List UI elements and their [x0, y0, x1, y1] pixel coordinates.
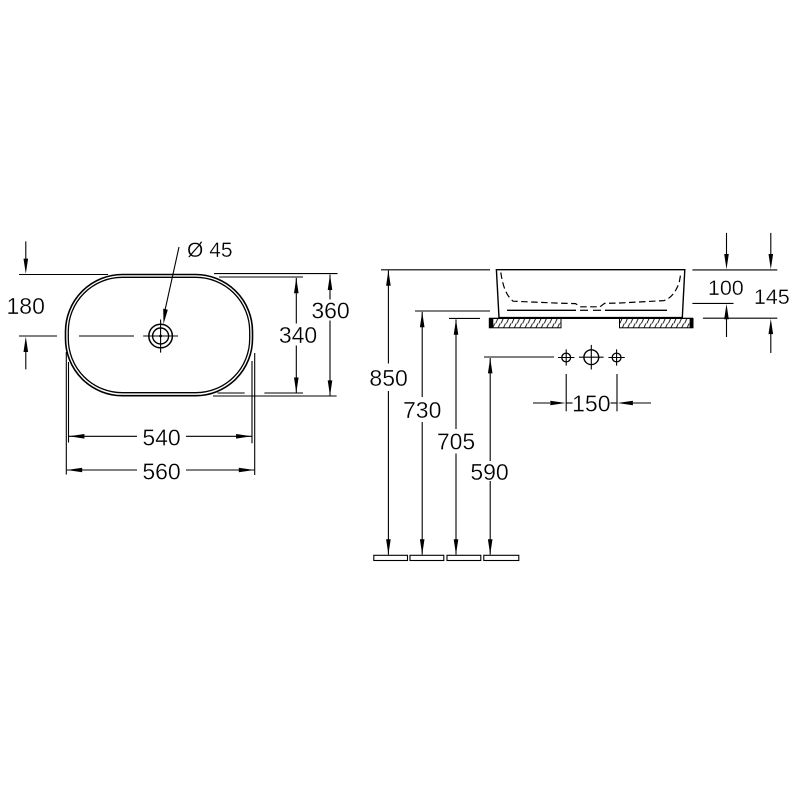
drain hole inner circle — [153, 328, 169, 344]
countertop hatched section right — [620, 318, 694, 327]
dimension 730 line lower segment with arrow — [421, 422, 423, 555]
basin floor solid line right — [605, 309, 667, 311]
dimension 100 lower arrow (up) — [726, 319, 728, 337]
svg-text:705: 705 — [437, 429, 475, 455]
dimension 850 top extension line — [381, 269, 490, 271]
dimension 360 bottom extension line — [213, 395, 337, 397]
dimension 100/145 top extension line — [692, 269, 777, 271]
dimension 340 bottom extension line — [218, 392, 245, 394]
svg-text:590: 590 — [470, 459, 508, 485]
dimension 340 line upper segment with arrow — [295, 278, 297, 324]
dimension 150 line stubs — [566, 402, 572, 404]
basin profile (side view) — [496, 270, 684, 318]
dimension 850 line lower segment with arrow — [387, 391, 389, 555]
dimension 705 line upper segment with arrow — [455, 319, 457, 429]
floor tile 2 — [410, 555, 444, 560]
countertop hatched section left — [489, 318, 561, 327]
dimension 145 upper arrow (down) — [770, 233, 772, 255]
dimension 540 line right segment with arrow — [186, 435, 252, 437]
dimension 730 line upper segment with arrow — [421, 312, 423, 397]
faucet hole right — [612, 353, 621, 362]
dimension 180 top extension line — [19, 274, 108, 276]
dimension 590 extension line — [484, 356, 554, 358]
dimension 145 bottom extension line — [703, 317, 777, 319]
floor tile 4 — [484, 555, 519, 560]
dimension 180 upper arrow (down) — [25, 241, 27, 259]
dimension 560 line left segment with arrow — [67, 469, 137, 471]
floor tile 3 — [447, 555, 481, 560]
dimension 150 left extension line — [565, 374, 567, 411]
dimension 540 line left segment with arrow — [69, 435, 137, 437]
dimension 540 right extension line — [251, 361, 253, 443]
svg-text:730: 730 — [403, 397, 441, 423]
dimension 730 extension line — [415, 310, 490, 312]
dimension 340 top extension line — [219, 276, 303, 278]
svg-text:150: 150 — [572, 390, 610, 416]
dimension 560 right extension line — [254, 353, 256, 475]
horizontal centerline of oval — [79, 335, 134, 337]
svg-text:850: 850 — [369, 365, 407, 391]
svg-text:Ø 45: Ø 45 — [187, 239, 233, 262]
dimension 360 line lower segment with arrow — [329, 321, 331, 396]
basin floor dashes at drain — [580, 309, 588, 311]
drain center dot — [159, 335, 162, 338]
dimension 560 left extension line — [65, 352, 67, 475]
basin floor solid line left — [507, 309, 576, 311]
dimension 150 right outside arrow — [633, 402, 651, 404]
leader arrowhead — [163, 309, 168, 325]
faucet hole center — [584, 350, 599, 365]
dimension 540 left extension line — [68, 362, 70, 443]
drain crosshair vertical — [160, 320, 162, 353]
dimension 150 left outside arrow — [533, 402, 550, 404]
basin inner contour dashed — [501, 273, 681, 307]
svg-text:540: 540 — [142, 425, 180, 451]
leader line for diameter 45 — [165, 247, 179, 312]
dimension 590 line lower segment with arrow — [489, 481, 491, 555]
countertop top line — [489, 317, 693, 319]
dimension 850 line upper segment with arrow — [387, 270, 389, 363]
dimension 590 line upper segment with arrow — [489, 358, 491, 461]
dimension 180 center extension line — [19, 335, 57, 337]
svg-text:360: 360 — [311, 297, 349, 323]
dimension 145 lower arrow (up) — [770, 334, 772, 354]
dimension 360 top extension line — [214, 273, 338, 275]
drain crosshair horizontal — [143, 335, 178, 337]
dimension 180 lower arrow (up) — [25, 352, 27, 369]
svg-text:560: 560 — [142, 459, 180, 485]
svg-text:180: 180 — [7, 293, 45, 319]
dimension 340 line lower segment with arrow — [295, 346, 297, 393]
svg-text:145: 145 — [754, 285, 790, 309]
floor tile 1 — [374, 555, 408, 560]
dimension 705 extension line — [449, 317, 480, 319]
svg-text:100: 100 — [708, 276, 744, 300]
faucet hole left — [562, 353, 571, 362]
basin outer rim (top view oval) — [66, 275, 253, 396]
dimension 100 upper arrow (down) — [726, 233, 728, 255]
dimension 705 line lower segment with arrow — [455, 454, 457, 555]
dimension 100 bottom extension line — [692, 302, 733, 304]
svg-text:340: 340 — [279, 322, 317, 348]
dimension 560 line right segment with arrow — [186, 469, 254, 471]
dimension 360 line upper segment with arrow — [329, 275, 331, 300]
dimension 150 right extension line — [616, 374, 618, 411]
drain hole outer circle — [149, 324, 173, 348]
basin inner rim (top view oval) — [68, 277, 249, 392]
